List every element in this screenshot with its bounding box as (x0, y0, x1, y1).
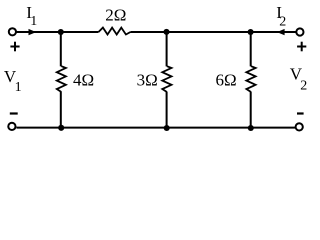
svg-text:2: 2 (279, 14, 286, 29)
svg-text:6Ω: 6Ω (216, 70, 237, 89)
svg-text:3Ω: 3Ω (137, 70, 158, 89)
svg-text:2Ω: 2Ω (105, 5, 126, 24)
svg-text:2: 2 (300, 79, 307, 94)
svg-text:1: 1 (15, 80, 22, 95)
svg-text:1: 1 (30, 14, 37, 29)
svg-text:4Ω: 4Ω (73, 70, 94, 89)
